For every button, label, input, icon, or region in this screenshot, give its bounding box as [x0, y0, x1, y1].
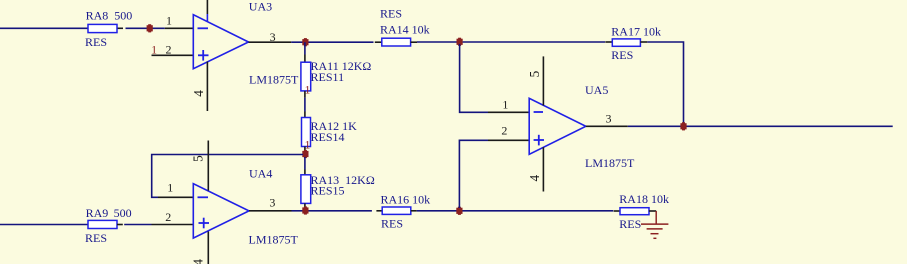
UA4 output pin wire — [249, 195, 372, 210]
UA4 part type LM1875T — [249, 232, 299, 246]
svg-text:RES14: RES14 — [311, 130, 345, 144]
resistor RA18 — [614, 192, 669, 231]
UA3 designator — [249, 0, 272, 14]
svg-text:RES: RES — [381, 217, 403, 231]
feedback wire UA4 minus — [152, 155, 303, 198]
svg-text:UA3: UA3 — [249, 0, 272, 14]
wire RA13 to bottom rail — [304, 203, 306, 210]
UA4 top pin 5 line — [190, 141, 208, 191]
UA4 bottom pin 4 line — [191, 232, 209, 264]
wire UA3 plus stub — [152, 54, 194, 56]
wire junction up to UA5 plus — [459, 140, 529, 208]
wire input top rail to RA8 — [0, 27, 88, 29]
svg-text:RES11: RES11 — [311, 70, 345, 84]
UA5 bottom pin 4 line — [527, 147, 544, 191]
svg-text:RA17 10k: RA17 10k — [611, 25, 661, 39]
wire input bottom rail to RA9 — [0, 224, 88, 226]
net label 1 on UA3 plus stub — [151, 45, 157, 57]
node junction UA4 output — [302, 206, 308, 214]
wire junction to RA13 — [304, 157, 306, 175]
svg-text:3: 3 — [270, 30, 276, 44]
svg-text:2: 2 — [501, 123, 507, 137]
resistor RA14 — [375, 6, 430, 46]
svg-text:1: 1 — [502, 98, 508, 112]
UA5 designator — [585, 83, 608, 97]
wire RA14 to junction — [417, 41, 457, 43]
svg-text:RES: RES — [380, 6, 402, 20]
svg-text:5: 5 — [527, 70, 542, 77]
svg-text:1: 1 — [166, 13, 172, 27]
wire RA9 to UA4 plus — [117, 224, 193, 226]
resistor RA16 — [376, 193, 430, 231]
svg-text:4: 4 — [527, 174, 542, 181]
RA12 red pin 1 — [305, 140, 311, 152]
wire RA17 right down to output — [647, 42, 683, 126]
resistor RA11 — [301, 59, 371, 91]
resistor RA8 — [85, 9, 132, 49]
UA5 top pin 5 line — [527, 56, 544, 105]
RA11 chain vertical wire — [304, 42, 306, 62]
svg-text:UA4: UA4 — [249, 167, 272, 181]
svg-text:RES: RES — [85, 231, 107, 245]
wire junction down to UA5 minus — [460, 44, 530, 112]
resistor RA12 — [302, 118, 358, 147]
svg-text:RES: RES — [619, 217, 641, 231]
node junction after RA8 — [147, 24, 153, 32]
svg-text:2: 2 — [165, 210, 171, 224]
RA11 red pin 1 — [305, 84, 311, 96]
node junction RA14 right — [457, 38, 463, 46]
svg-text:RA9 500: RA9 500 — [86, 206, 132, 220]
op-amp UA3 triangle — [193, 15, 248, 69]
op-amp UA5 triangle — [529, 98, 586, 154]
pin number 2 UA4 — [165, 210, 171, 224]
wire RA12 to junction — [304, 147, 306, 155]
svg-text:RA14 10k: RA14 10k — [380, 23, 430, 37]
UA3 bottom pin 4 line — [191, 62, 207, 111]
resistor RA17 — [605, 25, 661, 62]
UA3 part type LM1875T — [249, 73, 299, 87]
UA4 designator — [249, 167, 272, 181]
op-amp UA4 triangle — [193, 184, 249, 238]
svg-text:RA16 10k: RA16 10k — [381, 193, 431, 207]
svg-text:RA8 500: RA8 500 — [86, 9, 133, 23]
svg-text:3: 3 — [606, 112, 612, 126]
svg-text:LM1875T: LM1875T — [585, 156, 635, 170]
pin number 1 UA4 — [167, 181, 173, 195]
node junction UA5 output — [680, 122, 686, 130]
svg-text:LM1875T: LM1875T — [249, 232, 299, 246]
pin number 2 UA5 — [501, 123, 507, 137]
svg-text:4: 4 — [191, 90, 206, 97]
svg-text:RES: RES — [85, 35, 107, 49]
UA5 output pin wire — [586, 112, 893, 127]
wire RA8 right to UA3 minus — [117, 27, 193, 29]
ground symbol — [641, 211, 668, 238]
wire RA16 to RA18 — [417, 210, 614, 212]
node junction feedback — [302, 150, 308, 158]
svg-text:3: 3 — [269, 195, 275, 209]
svg-text:5: 5 — [190, 155, 205, 162]
wire RA11 to RA12 — [304, 91, 306, 118]
pin number 1 UA3 minus — [166, 13, 172, 27]
wire junction to RA17 — [463, 41, 605, 43]
node junction UA3 output — [302, 38, 308, 46]
UA5 part type LM1875T — [585, 156, 635, 170]
resistor RA9 — [85, 206, 132, 245]
svg-text:1: 1 — [167, 181, 173, 195]
pin number 1 UA5 — [502, 98, 508, 112]
svg-text:4: 4 — [191, 259, 206, 264]
resistor RA13 — [301, 173, 375, 204]
UA3 output pin wire — [249, 30, 374, 44]
svg-text:RES: RES — [611, 48, 633, 62]
UA3 top pin 5 line — [206, 0, 208, 22]
svg-text:RA18 10k: RA18 10k — [619, 192, 669, 206]
svg-text:UA5: UA5 — [585, 83, 608, 97]
svg-text:RES15: RES15 — [311, 184, 345, 198]
pin number 2 UA3 plus — [166, 43, 172, 57]
node junction RA16 right — [456, 207, 462, 215]
svg-text:LM1875T: LM1875T — [249, 73, 299, 87]
